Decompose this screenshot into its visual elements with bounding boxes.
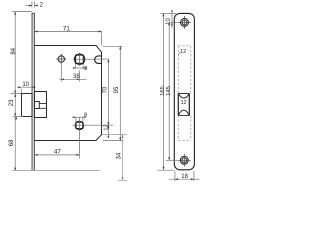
- svg-text:18: 18: [181, 174, 188, 180]
- svg-text:95: 95: [114, 86, 120, 93]
- svg-text:8: 8: [84, 112, 87, 118]
- svg-text:165: 165: [160, 86, 166, 96]
- svg-text:145: 145: [166, 86, 172, 96]
- svg-text:70: 70: [103, 86, 109, 93]
- svg-text:10: 10: [22, 82, 29, 88]
- svg-text:12: 12: [103, 124, 109, 130]
- svg-text:8: 8: [84, 66, 87, 72]
- svg-text:34: 34: [117, 152, 123, 159]
- svg-text:38: 38: [73, 74, 80, 80]
- svg-text:12: 12: [181, 100, 187, 106]
- svg-text:84: 84: [11, 47, 17, 54]
- svg-text:12: 12: [180, 49, 186, 55]
- svg-text:47: 47: [54, 149, 61, 156]
- svg-text:68: 68: [9, 139, 15, 146]
- svg-text:23: 23: [9, 99, 15, 106]
- svg-text:2: 2: [40, 3, 44, 9]
- svg-text:71: 71: [63, 26, 71, 33]
